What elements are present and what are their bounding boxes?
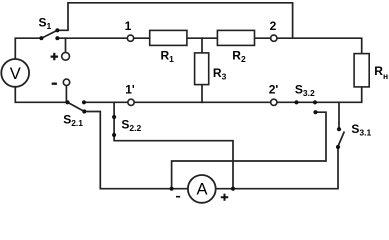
junction dot S2.2 upper contact xyxy=(112,115,116,119)
wire R2 through node 2 to RH top xyxy=(255,38,362,53)
switch S2.1 blade xyxy=(68,102,85,111)
wire plus terminal lead xyxy=(65,38,67,52)
wire row A from S1 through node 1 to R1 xyxy=(57,37,148,39)
voltmeter V xyxy=(1,59,29,87)
svg-text:V: V xyxy=(10,65,21,83)
wire R3 bottom lead xyxy=(201,85,203,102)
terminal minus xyxy=(63,79,69,85)
wire ammeter minus branch to open contact under S3.2 xyxy=(172,112,326,189)
junction dot S3.1 lower contact xyxy=(336,145,340,149)
resistor RH xyxy=(354,54,369,87)
wire R1 to R2 xyxy=(188,37,217,39)
junction dot S1 upper contact xyxy=(55,28,59,32)
resistor R2 xyxy=(217,30,254,45)
wire S2.1 lower hook down to bottom row and ammeter minus xyxy=(84,112,187,189)
label plus ammeter xyxy=(221,194,228,201)
wire row B from S2.1 contact through 1' 2' S3.2 to RH bottom xyxy=(84,88,362,103)
junction dot ammeter plus node xyxy=(231,187,235,191)
wire R3 top lead xyxy=(201,38,203,52)
junction dot S3.2 left contact xyxy=(294,100,298,104)
wire minus terminal lead xyxy=(65,86,67,102)
junction dot S2.1 through contact xyxy=(82,100,86,104)
junction dot S2.1 pivot xyxy=(65,100,69,104)
node 2' xyxy=(271,99,277,105)
svg-text:2': 2' xyxy=(269,83,279,97)
svg-text:A: A xyxy=(196,180,207,198)
svg-text:1: 1 xyxy=(125,19,132,33)
label minus top xyxy=(52,83,57,85)
junction dot open contact below S3.2 xyxy=(313,110,317,114)
label minus ammeter xyxy=(176,196,180,198)
label plus top xyxy=(51,53,58,60)
node 1' xyxy=(128,99,134,105)
wire S1 upper hook and top rail to node2 wire xyxy=(57,3,292,38)
resistor R1 xyxy=(150,30,187,45)
resistor R3 xyxy=(195,53,209,85)
switch S1 blade xyxy=(41,30,57,38)
node 2 xyxy=(271,35,277,41)
junction dot ammeter minus node xyxy=(170,187,174,191)
wire V top lead to S1 xyxy=(15,38,41,58)
junction dot S1 through contact xyxy=(55,36,59,40)
ammeter A xyxy=(188,175,216,203)
junction dot S3.1 upper contact xyxy=(337,127,341,131)
junction dot S1 pivot xyxy=(39,36,43,40)
wire S2.2 branch down and across to ammeter plus xyxy=(114,102,233,188)
node 1 xyxy=(127,35,133,41)
junction dot S2.2 lower contact xyxy=(112,133,116,137)
junction dot S2.1 lower contact xyxy=(82,109,86,113)
wire S3.1 upper feed xyxy=(338,102,340,129)
terminal plus xyxy=(62,52,70,60)
svg-text:2: 2 xyxy=(270,19,277,33)
junction dot S3.2 right contact xyxy=(313,100,317,104)
svg-text:1': 1' xyxy=(125,83,135,97)
wire V bottom lead to S2.1 pivot xyxy=(15,88,67,103)
wire S3.1 lower lead and bottom row to ammeter plus xyxy=(217,147,338,189)
switch S3.1 blade xyxy=(338,132,345,147)
